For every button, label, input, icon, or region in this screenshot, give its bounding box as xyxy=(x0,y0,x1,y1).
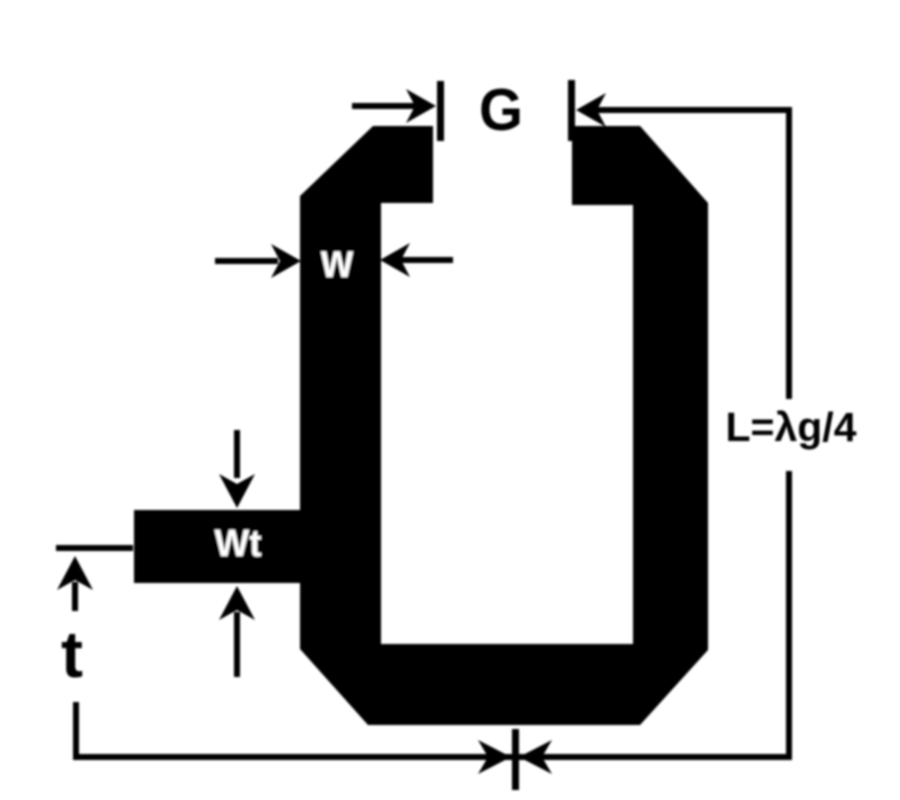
gap right arrow shaft joining L dimension line xyxy=(597,107,792,113)
svg-text:w: w xyxy=(320,235,353,288)
t reference tick beside stub xyxy=(56,545,133,551)
svg-text:t: t xyxy=(61,617,83,691)
t arrowhead (points up) xyxy=(57,556,93,590)
w right arrowhead (points left) xyxy=(380,243,410,277)
bottom center tick xyxy=(512,729,519,790)
gap left arrowhead (points right) xyxy=(406,89,436,123)
feed stub (tap line) xyxy=(134,510,300,583)
gap right arrowhead (points left) xyxy=(576,93,606,127)
t arrow shaft xyxy=(72,582,78,611)
w right arrow shaft xyxy=(401,257,453,263)
Wt bottom arrowhead (points up) xyxy=(219,586,255,620)
gap left tick xyxy=(437,81,444,141)
gap left arrow shaft xyxy=(352,103,418,109)
left bracket vertical segment xyxy=(73,702,79,760)
svg-text:Wt: Wt xyxy=(215,523,262,565)
Wt bottom arrow shaft xyxy=(234,612,240,677)
bottom dimension line xyxy=(73,754,792,760)
svg-text:G: G xyxy=(479,77,523,143)
quarter-wave open-loop resonator ring (black microstrip trace) xyxy=(300,126,708,725)
Wt top arrow shaft xyxy=(234,430,240,478)
bottom arrowhead pointing left into tick xyxy=(519,740,552,774)
L dimension vertical line upper segment xyxy=(786,107,792,399)
svg-text:L=λg/4: L=λg/4 xyxy=(726,404,857,450)
w left arrowhead (points right) xyxy=(271,244,301,278)
bottom arrowhead pointing right into tick xyxy=(478,740,511,774)
w left arrow shaft xyxy=(215,258,278,264)
gap right tick xyxy=(568,80,575,141)
Wt top arrowhead (points down) xyxy=(219,474,255,508)
L dimension vertical line lower segment xyxy=(786,471,792,760)
